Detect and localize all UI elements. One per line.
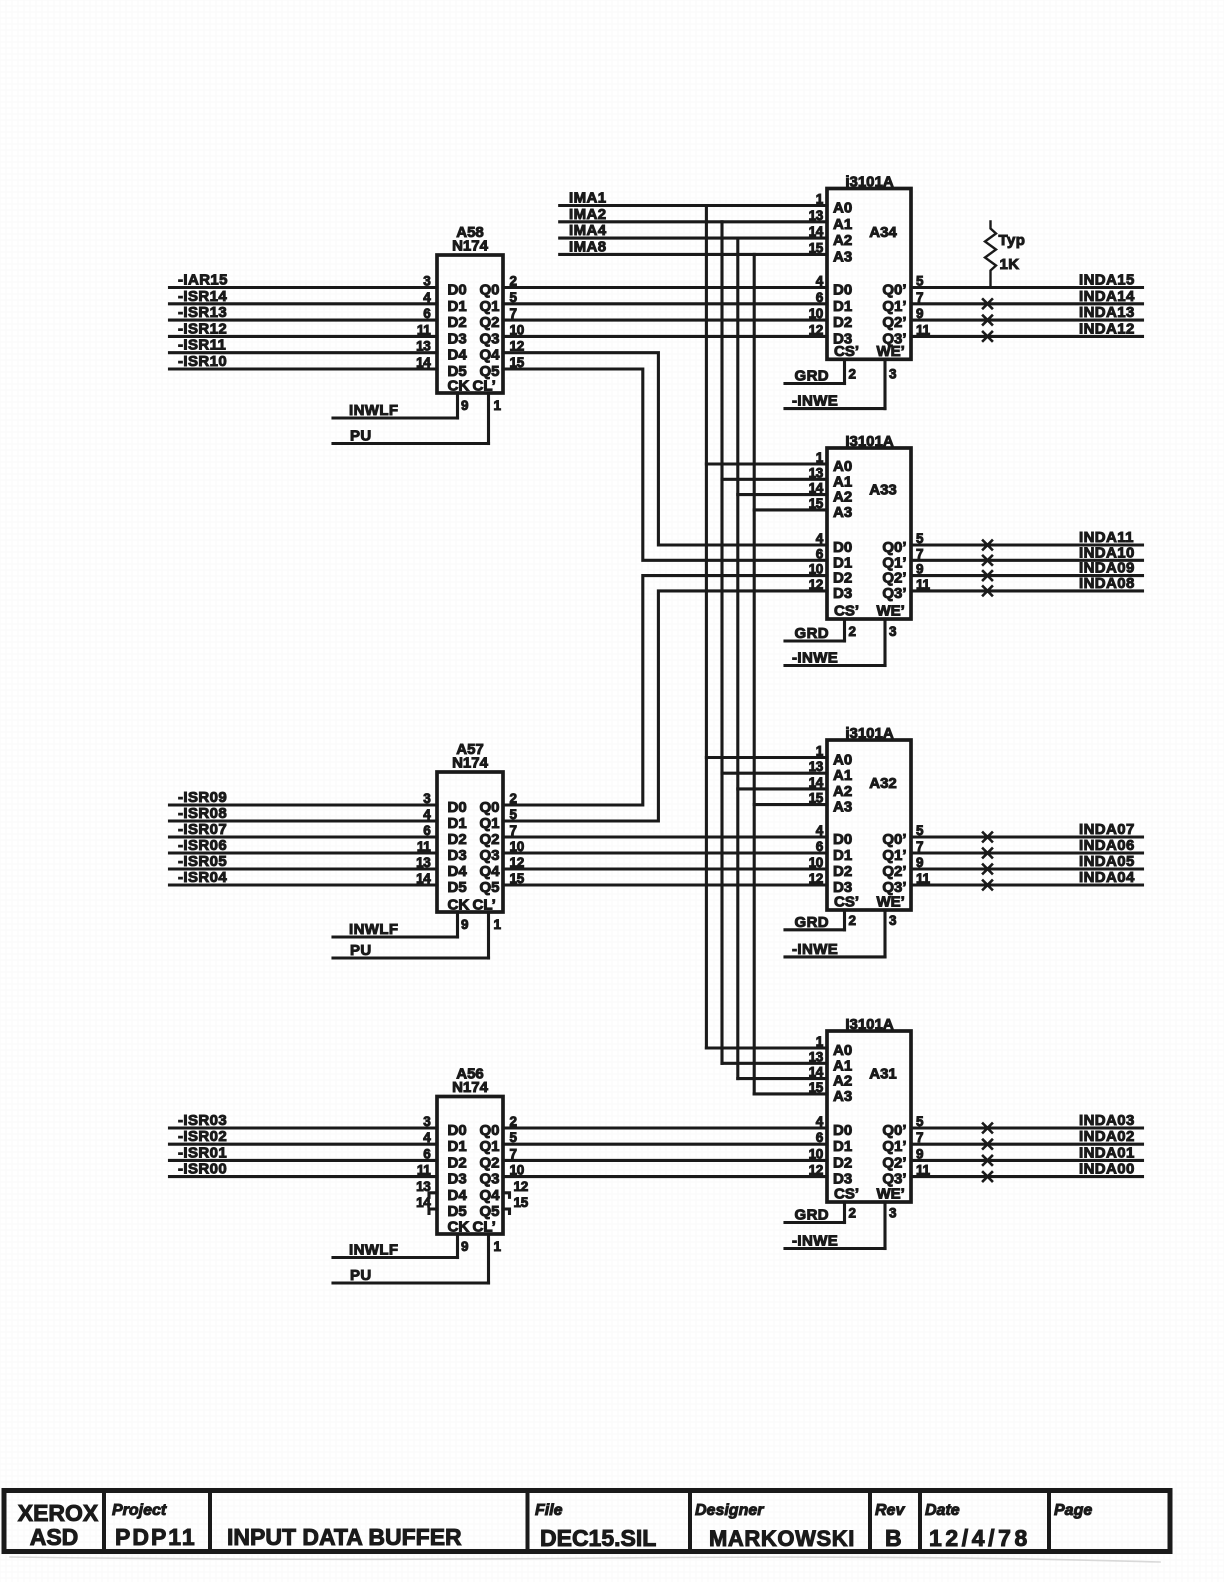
svg-text:13: 13 [416, 855, 431, 870]
svg-text:Q1’: Q1’ [882, 298, 906, 315]
title block divider 7 [1047, 1491, 1051, 1552]
ground net GRD wire to A31 CS&#8217; [785, 1221, 845, 1224]
wire net -ISR04 to A57 D5 [170, 883, 438, 886]
svg-text:GRD: GRD [795, 914, 830, 931]
svg-text:A33: A33 [869, 481, 897, 498]
wire net INDA11 from A33 Q0&#8217; [911, 543, 1143, 546]
no-connect X on INDA07 [983, 833, 992, 842]
svg-text:INDA07: INDA07 [1079, 821, 1135, 838]
svg-text:WE’: WE’ [877, 894, 905, 911]
svg-text:15: 15 [809, 496, 824, 511]
svg-text:6: 6 [816, 1130, 824, 1145]
wire A31 CS&#8217; pin 2 stub [843, 1202, 846, 1223]
wire net INWLF to A58 CK [333, 416, 458, 419]
svg-text:Project: Project [112, 1502, 167, 1519]
svg-text:D2: D2 [448, 314, 467, 331]
wire net -ISR05 to A57 D4 [170, 867, 438, 870]
svg-text:B: B [885, 1525, 902, 1551]
svg-text:6: 6 [816, 290, 824, 305]
svg-text:A3: A3 [833, 799, 852, 816]
wire A56 Q3 to A31 D3 [503, 1175, 827, 1178]
wire A58 Q0 to A34 D0 [503, 286, 827, 289]
svg-text:1: 1 [816, 192, 824, 207]
svg-text:PDP11: PDP11 [115, 1524, 197, 1550]
wire A57 CL&#8217; pin 1 stub [487, 912, 490, 958]
svg-text:CS’: CS’ [834, 894, 859, 911]
svg-text:D3: D3 [448, 1171, 467, 1188]
svg-text:12: 12 [809, 322, 823, 337]
svg-text:3: 3 [889, 367, 897, 382]
svg-text:-ISR05: -ISR05 [178, 853, 227, 870]
svg-text:D0: D0 [448, 1122, 467, 1139]
svg-text:-ISR07: -ISR07 [178, 821, 227, 838]
wire net INDA13 from A34 Q2&#8217; [911, 319, 1143, 322]
wire net IMA4 vertical bus drop [736, 238, 739, 1079]
wire net INWLF to A56 CK [333, 1256, 458, 1259]
svg-text:CL’: CL’ [473, 897, 496, 914]
wire net INDA05 from A32 Q2&#8217; [911, 867, 1143, 870]
wire net -ISR13 to A58 D2 [170, 319, 438, 322]
svg-text:1: 1 [494, 917, 502, 932]
resistor R pull-up 1K typ [985, 222, 996, 288]
svg-text:13: 13 [416, 339, 431, 354]
svg-text:A1: A1 [833, 216, 852, 233]
wire A57 Q5 to A32 D3 [503, 883, 827, 886]
svg-text:A31: A31 [869, 1065, 897, 1082]
wire net IMA1 horizontal run to A34 A0 [560, 204, 827, 207]
svg-text:1K: 1K [1000, 256, 1020, 273]
no-connect X on INDA06 [983, 849, 992, 858]
svg-text:A3: A3 [833, 248, 852, 265]
no-connect X on INDA04 [983, 881, 992, 890]
svg-text:9: 9 [461, 398, 468, 413]
title block outer frame [4, 1491, 1170, 1552]
wire net INDA12 from A34 Q3&#8217; [911, 335, 1143, 338]
wire A56 CL&#8217; pin 1 stub [487, 1234, 490, 1283]
svg-text:14: 14 [416, 1195, 431, 1210]
svg-text:ASD: ASD [30, 1524, 79, 1550]
wire net INDA10 from A33 Q1&#8217; [911, 559, 1143, 562]
wire net PU to A57 CL&#8217; [333, 956, 489, 959]
svg-text:INWLF: INWLF [349, 402, 398, 419]
svg-text:Q1’: Q1’ [882, 847, 906, 864]
svg-text:Q5: Q5 [479, 1203, 499, 1220]
svg-text:14: 14 [809, 775, 824, 790]
svg-text:i3101A: i3101A [845, 174, 894, 191]
wire net INDA00 from A31 Q3&#8217; [911, 1175, 1143, 1178]
ground net GRD wire to A34 CS&#8217; [785, 382, 845, 385]
svg-text:D1: D1 [448, 1138, 467, 1155]
svg-text:D0: D0 [448, 282, 467, 299]
wire A57 Q0 to A33 D2 (elbow) [503, 576, 827, 805]
svg-text:-INWE: -INWE [792, 650, 838, 667]
svg-text:1: 1 [494, 398, 502, 413]
svg-text:Date: Date [925, 1502, 960, 1519]
svg-text:IMA8: IMA8 [569, 238, 606, 255]
svg-text:INDA13: INDA13 [1079, 304, 1135, 321]
svg-text:D1: D1 [448, 815, 467, 832]
wire IMA8 tap to A32 A3 [754, 803, 827, 806]
svg-text:Q4: Q4 [479, 1187, 500, 1204]
IC A57 N174 body [437, 772, 503, 912]
wire A57 Q1 to A33 D3 (elbow) [503, 591, 827, 821]
svg-text:6: 6 [816, 839, 824, 854]
svg-text:3: 3 [889, 1206, 897, 1221]
svg-text:14: 14 [416, 355, 431, 370]
svg-text:10: 10 [809, 1146, 823, 1161]
svg-text:A0: A0 [833, 200, 852, 217]
svg-text:1: 1 [816, 744, 824, 759]
wire net IMA4 horizontal run to A34 A2 [560, 237, 827, 240]
wire A58 CL&#8217; pin 1 stub [487, 393, 490, 444]
svg-text:Q0: Q0 [479, 799, 499, 816]
svg-text:3: 3 [423, 274, 431, 289]
svg-text:12: 12 [514, 1179, 528, 1194]
svg-text:D1: D1 [833, 1138, 852, 1155]
wire IMA4 tap to A33 A2 [738, 493, 827, 496]
no-connect X on INDA05 [983, 865, 992, 874]
svg-text:GRD: GRD [795, 368, 830, 385]
wire IMA4 tap to A32 A2 [738, 787, 827, 790]
svg-text:-ISR02: -ISR02 [178, 1128, 227, 1145]
svg-text:D1: D1 [833, 298, 852, 315]
svg-text:-ISR08: -ISR08 [178, 805, 227, 822]
wire net -IAR15 to A58 D0 [170, 286, 438, 289]
svg-text:Q1: Q1 [479, 298, 499, 315]
svg-text:Q1’: Q1’ [882, 1138, 906, 1155]
svg-text:-ISR00: -ISR00 [178, 1161, 227, 1178]
svg-text:-ISR04: -ISR04 [178, 869, 227, 886]
svg-text:15: 15 [809, 1080, 824, 1095]
svg-text:10: 10 [809, 306, 823, 321]
no-connect X on INDA03 [983, 1124, 992, 1133]
no-connect X on INDA08 [983, 586, 992, 595]
svg-text:INDA06: INDA06 [1079, 837, 1135, 854]
wire net IMA8 vertical bus drop [753, 254, 756, 1094]
svg-text:3: 3 [889, 913, 897, 928]
wire A32 CS&#8217; pin 2 stub [843, 910, 846, 930]
wire net -ISR09 to A57 D0 [170, 803, 438, 806]
svg-text:D5: D5 [448, 1203, 467, 1220]
title block divider 4 [688, 1491, 692, 1552]
stub unconnected A56 D4 pin [429, 1193, 437, 1198]
IC A31 i3101A body [827, 1031, 911, 1202]
wire A57 CK pin 9 stub [456, 912, 459, 937]
svg-text:12: 12 [809, 1163, 823, 1178]
svg-text:14: 14 [809, 481, 824, 496]
wire IMA4 tap to A31 A2 [738, 1077, 827, 1080]
svg-text:I3101A: I3101A [845, 433, 894, 450]
svg-text:3: 3 [423, 791, 431, 806]
wire net -INWE to A31 WE&#8217; [785, 1247, 885, 1250]
svg-text:15: 15 [514, 1195, 529, 1210]
wire IMA2 tap to A31 A1 [722, 1062, 827, 1065]
wire A57 Q2 to A32 D0 [503, 835, 827, 838]
svg-text:I3101A: I3101A [845, 1016, 894, 1033]
svg-text:Q0: Q0 [479, 282, 499, 299]
IC A32 i3101A body [827, 740, 911, 910]
svg-text:D0: D0 [833, 831, 852, 848]
svg-text:D2: D2 [833, 863, 852, 880]
wire A56 Q1 to A31 D1 [503, 1143, 827, 1146]
svg-text:Q2: Q2 [479, 314, 499, 331]
wire net -INWE to A33 WE&#8217; [785, 664, 885, 667]
svg-text:-INWE: -INWE [792, 393, 838, 410]
svg-text:A1: A1 [833, 767, 852, 784]
svg-text:-ISR03: -ISR03 [178, 1112, 227, 1129]
svg-text:File: File [535, 1502, 563, 1519]
wire A58 Q3 to A34 D3 [503, 335, 827, 338]
no-connect X on INDA10 [983, 556, 992, 565]
svg-text:INWLF: INWLF [349, 921, 398, 938]
svg-text:4: 4 [423, 290, 431, 305]
svg-text:Q0: Q0 [479, 1122, 499, 1139]
wire IMA8 tap to A31 A3 [754, 1092, 827, 1095]
svg-text:6: 6 [423, 823, 431, 838]
svg-text:-ISR11: -ISR11 [178, 337, 226, 354]
svg-text:-ISR12: -ISR12 [178, 320, 227, 337]
svg-text:15: 15 [809, 240, 824, 255]
svg-text:D2: D2 [448, 831, 467, 848]
svg-text:CS’: CS’ [834, 343, 859, 360]
wire net -ISR00 to A56 D3 [170, 1175, 438, 1178]
wire IMA1 tap to A33 A0 [706, 462, 827, 465]
svg-text:-ISR09: -ISR09 [178, 789, 227, 806]
stub unconnected A56 Q4 pin [503, 1193, 510, 1198]
svg-text:IMA2: IMA2 [569, 206, 606, 223]
svg-text:INDA02: INDA02 [1079, 1128, 1135, 1145]
svg-text:INDA08: INDA08 [1079, 575, 1135, 592]
svg-text:-IAR15: -IAR15 [178, 272, 228, 289]
wire net -ISR01 to A56 D2 [170, 1159, 438, 1162]
IC A33 i3101A body [827, 448, 911, 619]
svg-text:GRD: GRD [795, 1207, 830, 1224]
wire A33 CS&#8217; pin 2 stub [843, 619, 846, 641]
svg-text:11: 11 [417, 322, 431, 337]
title block divider 6 [918, 1491, 922, 1552]
stub unconnected A56 Q5 pin [503, 1209, 510, 1214]
svg-text:N174: N174 [452, 1079, 489, 1096]
svg-text:Q0’: Q0’ [882, 1122, 906, 1139]
svg-text:N174: N174 [452, 238, 489, 255]
no-connect X on INDA02 [983, 1140, 992, 1149]
IC A34 i3101A body [827, 189, 911, 360]
IC A56 N174 body [437, 1097, 503, 1235]
wire net -ISR14 to A58 D1 [170, 302, 438, 305]
svg-text:Q3: Q3 [479, 1171, 499, 1188]
svg-text:Q1: Q1 [479, 1138, 499, 1155]
svg-text:CL’: CL’ [473, 378, 496, 395]
wire A58 Q2 to A34 D2 [503, 319, 827, 322]
svg-text:INDA05: INDA05 [1079, 853, 1135, 870]
svg-text:A34: A34 [869, 224, 897, 241]
svg-text:12: 12 [809, 577, 823, 592]
svg-text:2: 2 [849, 624, 856, 639]
svg-text:Typ: Typ [999, 232, 1026, 249]
svg-text:6: 6 [816, 546, 824, 561]
svg-text:2: 2 [849, 1206, 856, 1221]
svg-text:WE’: WE’ [877, 603, 905, 620]
svg-text:1: 1 [816, 1034, 824, 1049]
svg-text:D3: D3 [448, 330, 467, 347]
wire net INDA15 from A34 Q0&#8217; [911, 286, 1143, 289]
svg-text:13: 13 [809, 208, 824, 223]
svg-text:A2: A2 [833, 783, 852, 800]
svg-text:1: 1 [494, 1239, 502, 1254]
stub unconnected A56 D5 pin [429, 1209, 437, 1214]
no-connect X on INDA09 [983, 571, 992, 580]
no-connect X on INDA14 [983, 299, 992, 308]
svg-text:D0: D0 [833, 1122, 852, 1139]
wire A31 WE&#8217; pin 3 stub [883, 1202, 886, 1249]
svg-text:PU: PU [350, 1267, 372, 1284]
wire net INWLF to A57 CK [333, 935, 458, 938]
wire net INDA06 from A32 Q1&#8217; [911, 851, 1143, 854]
svg-text:D3: D3 [833, 585, 852, 602]
svg-text:-ISR01: -ISR01 [178, 1144, 227, 1161]
svg-text:PU: PU [350, 428, 372, 445]
wire IMA2 tap to A32 A1 [722, 772, 827, 775]
wire net -ISR03 to A56 D0 [170, 1126, 438, 1129]
svg-text:Q5: Q5 [479, 879, 499, 896]
svg-text:N174: N174 [452, 755, 489, 772]
svg-text:D2: D2 [833, 1154, 852, 1171]
svg-text:A2: A2 [833, 232, 852, 249]
svg-text:A0: A0 [833, 752, 852, 769]
svg-text:D0: D0 [833, 282, 852, 299]
svg-text:13: 13 [809, 465, 824, 480]
svg-text:Designer: Designer [695, 1502, 764, 1519]
svg-text:-INWE: -INWE [792, 941, 838, 958]
wire net INDA07 from A32 Q0&#8217; [911, 835, 1143, 838]
svg-text:Q1: Q1 [479, 815, 499, 832]
wire net IMA2 horizontal run to A34 A1 [560, 220, 827, 223]
svg-text:Q3: Q3 [479, 847, 499, 864]
svg-text:Rev: Rev [875, 1502, 905, 1519]
wire A57 Q3 to A32 D1 [503, 851, 827, 854]
svg-text:XEROX: XEROX [18, 1500, 99, 1526]
wire A56 Q2 to A31 D2 [503, 1159, 827, 1162]
no-connect X on INDA13 [983, 316, 992, 325]
svg-text:D1: D1 [448, 298, 467, 315]
svg-text:4: 4 [816, 823, 824, 838]
svg-text:D4: D4 [448, 863, 468, 880]
svg-text:6: 6 [423, 306, 431, 321]
wire net INDA09 from A33 Q2&#8217; [911, 574, 1143, 577]
svg-text:10: 10 [809, 562, 823, 577]
svg-text:13: 13 [809, 1049, 824, 1064]
wire A34 CS&#8217; pin 2 stub [843, 359, 846, 383]
svg-text:Q2’: Q2’ [882, 863, 906, 880]
wire A32 WE&#8217; pin 3 stub [883, 910, 886, 957]
svg-text:D0: D0 [448, 799, 467, 816]
ground net GRD wire to A33 CS&#8217; [785, 639, 845, 642]
svg-text:D5: D5 [448, 879, 467, 896]
svg-text:MARKOWSKI: MARKOWSKI [709, 1526, 855, 1551]
wire net INDA04 from A32 Q3&#8217; [911, 883, 1143, 886]
IC A58 N174 body [437, 255, 503, 393]
wire net -ISR02 to A56 D1 [170, 1143, 438, 1146]
svg-text:9: 9 [461, 1239, 468, 1254]
svg-text:A3: A3 [833, 1088, 852, 1105]
svg-text:1: 1 [816, 450, 824, 465]
title block divider 3 [526, 1491, 530, 1552]
wire A34 WE&#8217; pin 3 stub [883, 359, 886, 408]
svg-text:14: 14 [809, 224, 824, 239]
svg-text:14: 14 [416, 871, 431, 886]
svg-text:13: 13 [809, 759, 824, 774]
wire net -ISR12 to A58 D3 [170, 335, 438, 338]
svg-text:-ISR10: -ISR10 [178, 353, 227, 370]
svg-text:INDA04: INDA04 [1079, 869, 1135, 886]
svg-text:INDA12: INDA12 [1079, 320, 1135, 337]
svg-text:GRD: GRD [795, 625, 830, 642]
svg-text:IMA4: IMA4 [569, 222, 607, 239]
svg-text:D2: D2 [833, 314, 852, 331]
wire net IMA2 vertical bus drop [720, 222, 723, 1064]
svg-text:D4: D4 [448, 1187, 468, 1204]
svg-text:D3: D3 [448, 847, 467, 864]
wire net PU to A56 CL&#8217; [333, 1281, 489, 1284]
no-connect X on INDA01 [983, 1156, 992, 1165]
wire A58 Q1 to A34 D1 [503, 302, 827, 305]
wire A33 WE&#8217; pin 3 stub [883, 619, 886, 666]
svg-text:WE’: WE’ [877, 1186, 905, 1203]
wire net INDA02 from A31 Q1&#8217; [911, 1143, 1143, 1146]
svg-text:INDA01: INDA01 [1079, 1144, 1135, 1161]
svg-text:4: 4 [816, 274, 824, 289]
wire IMA2 tap to A33 A1 [722, 478, 827, 481]
title block divider 5 [868, 1491, 872, 1552]
svg-text:2: 2 [849, 367, 856, 382]
wire net -INWE to A32 WE&#8217; [785, 955, 885, 958]
svg-text:D2: D2 [448, 1154, 467, 1171]
svg-text:Q2’: Q2’ [882, 314, 906, 331]
svg-text:11: 11 [417, 1163, 431, 1178]
svg-text:INWLF: INWLF [349, 1242, 398, 1259]
svg-text:Q3’: Q3’ [882, 585, 906, 602]
svg-text:4: 4 [423, 1130, 431, 1145]
svg-text:INPUT DATA BUFFER: INPUT DATA BUFFER [227, 1524, 462, 1550]
svg-text:-ISR13: -ISR13 [178, 304, 227, 321]
svg-text:Q2’: Q2’ [882, 1154, 906, 1171]
wire net -ISR08 to A57 D1 [170, 819, 438, 822]
svg-text:-ISR06: -ISR06 [178, 837, 227, 854]
svg-text:IMA1: IMA1 [569, 190, 606, 207]
svg-text:Q2: Q2 [479, 831, 499, 848]
svg-text:A3: A3 [833, 504, 852, 521]
wire net -ISR11 to A58 D4 [170, 351, 438, 354]
scan smudge under title block [10, 1557, 1160, 1562]
no-connect X on INDA00 [983, 1172, 992, 1181]
svg-text:14: 14 [809, 1065, 824, 1080]
svg-text:PU: PU [350, 942, 372, 959]
wire A58 CK pin 9 stub [456, 393, 459, 418]
title block divider 2 [208, 1491, 212, 1552]
svg-text:D4: D4 [448, 347, 468, 364]
svg-text:WE’: WE’ [877, 343, 905, 360]
wire A56 CK pin 9 stub [456, 1234, 459, 1258]
no-connect X on INDA12 [983, 332, 992, 341]
svg-text:CL’: CL’ [473, 1219, 496, 1236]
wire net IMA8 horizontal run to A34 A3 [560, 253, 827, 256]
wire IMA8 tap to A33 A3 [754, 508, 827, 511]
svg-text:A32: A32 [869, 775, 897, 792]
svg-text:Q0’: Q0’ [882, 282, 906, 299]
wire net PU to A58 CL&#8217; [333, 442, 489, 445]
svg-text:2: 2 [849, 913, 856, 928]
svg-text:4: 4 [816, 1114, 824, 1129]
